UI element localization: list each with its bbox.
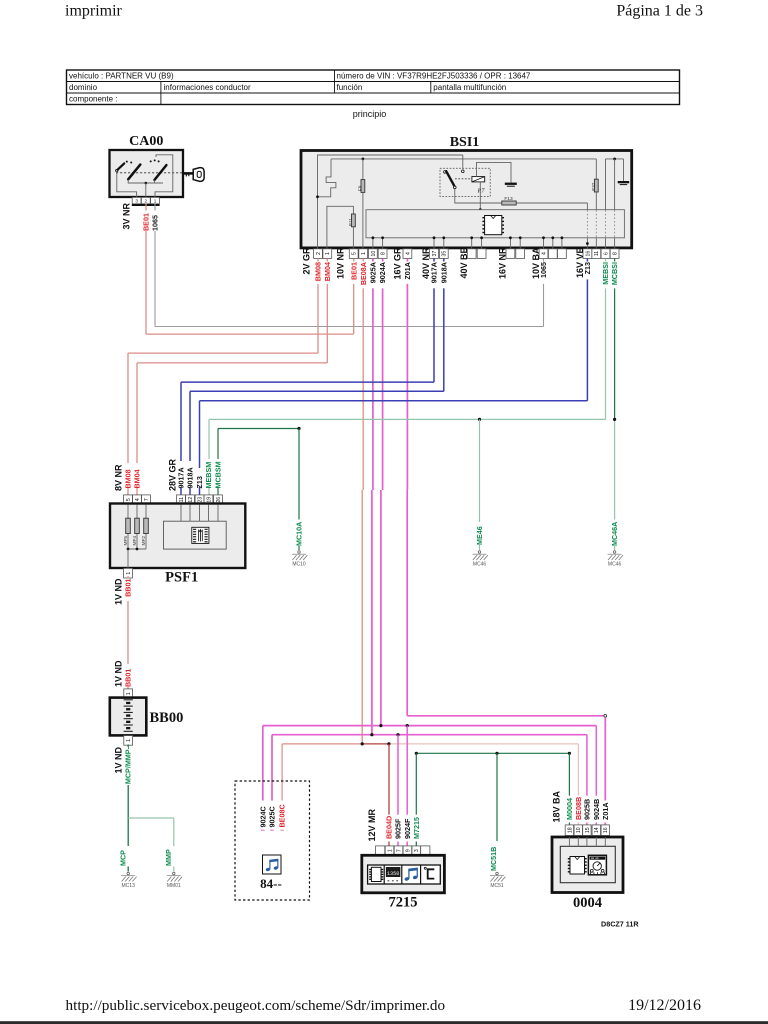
connector group label 10V NR at BSI1 xyxy=(336,247,346,279)
wire label BB01 above BB00 xyxy=(124,669,133,687)
svg-text:1V ND: 1V ND xyxy=(114,747,124,774)
svg-text:11: 11 xyxy=(179,497,185,502)
BSI1 internal logic block xyxy=(366,203,624,237)
svg-text:1: 1 xyxy=(325,252,331,255)
wire MCBSI (BSI1 pin8 down to ground MC46A) xyxy=(614,258,616,550)
svg-text:1065: 1065 xyxy=(151,215,160,231)
CA00 connector label 3V NR xyxy=(122,202,132,229)
music icon in 84 box xyxy=(263,855,282,874)
svg-text:10V NR: 10V NR xyxy=(336,247,346,279)
wire label MC10A xyxy=(295,522,304,546)
wire 9025 horizontal bus xyxy=(272,733,587,736)
BSI1 connector pins row xyxy=(314,249,619,259)
wire from R7 switch through F13 xyxy=(455,189,502,203)
BSI1 internal step connector shape xyxy=(316,159,336,198)
wire M7215 drop to 7215 xyxy=(415,753,417,846)
svg-text:MCP: MCP xyxy=(118,850,127,866)
BSI1 internal wire below F32 xyxy=(595,192,597,210)
svg-text:MCP/MMP-: MCP/MMP- xyxy=(124,746,133,784)
wire 9025B drop to 0004 xyxy=(586,735,588,825)
wire label Z13 at PSF1 xyxy=(195,476,204,488)
wire label MCP/MMP below BB00 xyxy=(124,746,133,784)
wire label MCP xyxy=(118,850,127,866)
wire 9018A (BSI1 pin35 to PSF1 pin12) xyxy=(190,258,444,495)
svg-text:F32: F32 xyxy=(591,182,597,191)
component 84 (dashed option box) xyxy=(235,781,310,900)
PSF1 internal wires and fuse bus xyxy=(127,505,146,569)
wire label 9025B at 0004 xyxy=(583,799,592,820)
BSI1 logic block IC xyxy=(482,216,504,235)
svg-text:BM04: BM04 xyxy=(133,469,142,488)
svg-text:BE08A: BE08A xyxy=(359,262,368,285)
svg-text:MC46: MC46 xyxy=(473,562,487,568)
svg-text:PSF1: PSF1 xyxy=(165,570,198,586)
wire label 9025A at BSI1 xyxy=(369,262,378,283)
PSF1 connector icon xyxy=(192,527,209,543)
component 7215 title xyxy=(389,895,418,911)
wire BE08C branch into 84 box xyxy=(280,744,284,830)
svg-text:componente :: componente : xyxy=(69,94,117,103)
wire BE08A (BSI1 down to junction E) xyxy=(362,258,363,744)
wire label 9018A at BSI1 xyxy=(439,262,448,283)
BSI1 junction on H2 at F9 xyxy=(362,158,365,161)
connector label 1V ND below PSF1 xyxy=(114,578,124,605)
BSI1 internal wire below F11 to pin 5 (BE01) xyxy=(352,227,354,249)
wire label 9025F at 7215 xyxy=(394,818,403,839)
component PSF1 body box xyxy=(110,504,245,569)
wire label BM08 at PSF1 xyxy=(124,469,133,488)
BSI1 logic block pin stubs xyxy=(372,236,615,248)
svg-text:1350: 1350 xyxy=(387,871,399,877)
svg-text:http://public.servicebox.peuge: http://public.servicebox.peugeot.com/sch… xyxy=(66,997,446,1014)
BSI1 internal wire pin 8 branch xyxy=(614,159,616,210)
7215 icon display xyxy=(386,868,400,881)
svg-text:BE01: BE01 xyxy=(142,213,151,231)
wire 9024A (BSI1 down to junction A) xyxy=(381,258,383,725)
component PSF1 labels above pins xyxy=(114,458,178,491)
BB00 bottom pin 1 xyxy=(124,736,133,746)
wire label M7215 at 7215 xyxy=(412,817,421,839)
BSI1 internal wire below F9 to pin (BE08A) xyxy=(362,192,364,248)
wire label 9025C xyxy=(268,806,277,827)
7215 icon music note xyxy=(404,868,418,882)
svg-text:F13: F13 xyxy=(504,196,513,202)
svg-text:MF5: MF5 xyxy=(123,536,129,546)
PSF1 top connector pins xyxy=(124,495,223,505)
svg-text:MC46A: MC46A xyxy=(610,522,619,546)
svg-text:7215: 7215 xyxy=(389,895,418,911)
wire 9025A (BSI1 down to junction C) xyxy=(372,258,373,734)
svg-text:1: 1 xyxy=(361,252,367,255)
wire MC51B (bus to ground MC51) xyxy=(496,753,498,841)
wire label 1065 at CA00 xyxy=(151,215,160,231)
relay R7 dashed box xyxy=(440,168,490,196)
svg-text:MM01: MM01 xyxy=(167,883,181,889)
svg-text:Z13: Z13 xyxy=(583,262,592,274)
svg-text:9025F: 9025F xyxy=(394,818,403,839)
svg-text:23: 23 xyxy=(197,497,203,503)
svg-text:3: 3 xyxy=(414,849,420,852)
component 84 title xyxy=(260,876,282,891)
fuse MF2 xyxy=(141,518,148,545)
svg-text:9017A: 9017A xyxy=(430,262,439,283)
svg-text:M0004: M0004 xyxy=(565,798,574,820)
wire label ME46 xyxy=(475,526,484,545)
svg-text:BB01: BB01 xyxy=(124,669,133,687)
0004 icon IC chip xyxy=(568,857,587,875)
svg-text:BB00: BB00 xyxy=(150,710,184,726)
svg-text:Z01A: Z01A xyxy=(601,802,610,820)
svg-text:principio: principio xyxy=(353,109,387,119)
component 7215 body box xyxy=(362,855,445,893)
svg-text:10: 10 xyxy=(371,251,377,257)
svg-text:1065: 1065 xyxy=(539,262,548,278)
wire label BE08A at BSI1 xyxy=(359,262,368,285)
wire label 9024C xyxy=(258,806,267,827)
svg-text:12: 12 xyxy=(188,497,194,503)
ground MC46 (right) xyxy=(608,551,623,568)
label "principio" xyxy=(353,109,387,119)
svg-text:informaciones conductor: informaciones conductor xyxy=(164,83,251,92)
svg-text:9018A: 9018A xyxy=(439,262,448,283)
svg-text:número de VIN : VF37R9HE2FJ503: número de VIN : VF37R9HE2FJ503336 / OPR … xyxy=(337,71,531,80)
fuse MF4 xyxy=(132,518,139,545)
wire label 1065 at BSI1 xyxy=(539,262,548,278)
relay R7 coil xyxy=(472,177,485,195)
svg-text:5: 5 xyxy=(126,498,132,501)
wire label Z01A at BSI1 xyxy=(403,262,412,280)
wire BE08 horizontal bus xyxy=(282,742,578,745)
BSI1 internal rail H2 xyxy=(331,158,596,160)
ground MC51 xyxy=(490,872,505,889)
wire label 9018A at PSF1 xyxy=(186,467,195,488)
svg-text:19: 19 xyxy=(206,497,212,503)
svg-text:imprimir: imprimir xyxy=(65,3,123,20)
connector group label 40V BE at BSI1 xyxy=(459,248,469,279)
svg-text:M7215: M7215 xyxy=(412,817,421,839)
wire MCBSM (PSF1 pin26 to MC10A ground) xyxy=(218,427,301,550)
svg-text:Z13: Z13 xyxy=(195,476,204,488)
svg-text:F11: F11 xyxy=(348,218,354,226)
svg-text:7: 7 xyxy=(144,498,150,501)
svg-text:37: 37 xyxy=(432,251,438,257)
ground MM01 xyxy=(167,872,182,889)
svg-text:BSI1: BSI1 xyxy=(450,135,480,150)
BSI1 internal ground bar (right) xyxy=(618,159,630,185)
wire label MCBSM at PSF1 xyxy=(214,461,223,488)
svg-text:9018A: 9018A xyxy=(186,467,195,488)
wire label Z01A at 0004 xyxy=(601,802,610,820)
svg-text:1V ND: 1V ND xyxy=(114,578,124,605)
BSI1 internal rail H1 xyxy=(318,155,463,249)
svg-text:1: 1 xyxy=(387,849,393,852)
relay R7 switch xyxy=(444,155,472,189)
svg-text:pantalla multifunción: pantalla multifunción xyxy=(433,83,506,92)
component CA00 title xyxy=(129,134,163,149)
0004 connector pins xyxy=(565,825,609,836)
wire 9025C branch into 84 box xyxy=(270,735,274,831)
wire BM04 (BSI1 pin1 to PSF1 pin4) xyxy=(137,258,327,495)
svg-text:MEBSM: MEBSM xyxy=(204,462,213,489)
BSI1 internal ground bar (centre) xyxy=(505,183,517,187)
svg-text:BM04: BM04 xyxy=(323,262,332,281)
svg-text:4: 4 xyxy=(135,498,141,501)
connector group label 16V NR at BSI1 xyxy=(498,247,508,279)
svg-text:F9: F9 xyxy=(358,185,364,191)
svg-text:9025B: 9025B xyxy=(583,799,592,820)
component 0004 body box xyxy=(552,837,623,893)
svg-text:35: 35 xyxy=(442,251,448,257)
wire 9024B drop to 0004 xyxy=(595,726,597,825)
svg-text:1: 1 xyxy=(126,739,132,742)
header table xyxy=(67,70,680,105)
svg-text:10: 10 xyxy=(576,827,582,833)
wire BE08B drop to 0004 xyxy=(577,744,579,825)
svg-text:BE08C: BE08C xyxy=(278,804,287,827)
svg-text:3V NR: 3V NR xyxy=(122,202,132,229)
svg-text:4: 4 xyxy=(541,252,547,255)
page header text "Página 1 de 3" xyxy=(616,3,703,20)
component BSI1 title xyxy=(450,135,480,150)
wire BM08 (BSI1 pin2 to PSF1 pin5) xyxy=(128,258,318,495)
svg-text:7: 7 xyxy=(396,849,402,852)
svg-text:2: 2 xyxy=(145,198,148,203)
connector group label 16V GR at BSI1 xyxy=(393,247,403,280)
7215 icon temperature C xyxy=(424,867,434,878)
svg-text:BM08: BM08 xyxy=(124,469,133,488)
svg-text:3: 3 xyxy=(135,198,138,203)
svg-text:6: 6 xyxy=(603,252,609,255)
svg-text:BE04D: BE04D xyxy=(385,816,394,839)
wire label MMP xyxy=(164,849,173,866)
wire label MEBSI at BSI1 xyxy=(601,262,610,285)
wire label 9024A at BSI1 xyxy=(378,262,387,283)
wire label M0004 at 0004 xyxy=(565,798,574,820)
ground MC46 xyxy=(473,551,488,568)
ground MC10 xyxy=(292,551,307,568)
svg-text:16V GR: 16V GR xyxy=(393,247,403,280)
svg-text:2: 2 xyxy=(316,252,322,255)
dashed crossing wires through logic block xyxy=(587,210,614,237)
svg-text:9024A: 9024A xyxy=(378,262,387,283)
connector group label 12V MR at 7215 xyxy=(367,808,377,841)
svg-text:MC10: MC10 xyxy=(292,562,306,568)
svg-text:MC51: MC51 xyxy=(490,883,504,889)
svg-text:MC10A: MC10A xyxy=(295,522,304,546)
svg-text:5: 5 xyxy=(352,252,358,255)
BSI1 internal wire pin 11 / F32 branch xyxy=(595,159,597,179)
CA00 pins 3,2,1 xyxy=(132,197,160,205)
svg-text:8V NR: 8V NR xyxy=(114,464,124,491)
svg-text:MC46: MC46 xyxy=(608,562,622,568)
wire M0004 drop to 0004 xyxy=(568,753,570,825)
BSI1 right internal rail with junction xyxy=(606,158,624,161)
wire label 9024F at 7215 xyxy=(403,818,412,839)
svg-text:R7: R7 xyxy=(477,189,486,195)
wire label BM08 at BSI1 xyxy=(314,262,323,281)
svg-text:MC51B: MC51B xyxy=(489,847,498,871)
svg-text:función: función xyxy=(337,83,363,92)
svg-text:16: 16 xyxy=(585,251,591,257)
svg-text:18V BA: 18V BA xyxy=(551,790,561,822)
wire BE04D drop to 7215 xyxy=(388,744,390,846)
wire label MC51B xyxy=(489,847,498,871)
component 0004 title xyxy=(573,895,602,911)
svg-text:BB01: BB01 xyxy=(124,579,133,597)
drawing reference D8CZ7 11R xyxy=(601,920,639,929)
svg-text:2V GR: 2V GR xyxy=(302,247,312,275)
key symbol at CA00 xyxy=(184,168,205,182)
BSI1 internal wire to pin 1 (BM04) xyxy=(327,206,354,248)
fuse F13 xyxy=(502,196,516,205)
wire label BE08B at 0004 xyxy=(574,797,583,820)
connector group label 16V VE at BSI1 xyxy=(575,248,585,279)
connector label 1V ND below BB00 xyxy=(114,747,124,774)
wire label MC46A xyxy=(610,522,619,546)
wire label BM04 at BSI1 xyxy=(323,262,332,281)
svg-text:dominio: dominio xyxy=(69,83,98,92)
wire label BM04 at PSF1 xyxy=(133,469,142,488)
svg-text:9: 9 xyxy=(405,849,411,852)
svg-text:9024C: 9024C xyxy=(258,806,267,827)
wire M7215/M0004 green bus xyxy=(415,752,571,755)
wire label BE04D at 7215 xyxy=(385,816,394,839)
svg-text:MF4: MF4 xyxy=(132,536,138,546)
wire label BB01 below PSF1 xyxy=(124,579,133,597)
wire 9024F drop to 7215 xyxy=(406,726,408,846)
wire BE01 (CA00 pin2 to BSI1 pin5) xyxy=(146,203,354,334)
component PSF1 title xyxy=(165,570,198,586)
bottom page edge bar xyxy=(0,1021,768,1024)
svg-text:84--: 84-- xyxy=(260,876,282,891)
wire MEBSI/MEBSM (BSI1 pin6 to PSF1 pin19) xyxy=(209,258,606,495)
svg-text:MC13: MC13 xyxy=(122,883,136,889)
7215 icon IC chip xyxy=(369,867,383,881)
wire label BE08C xyxy=(278,804,287,827)
wire from R7 coil to internal ground xyxy=(477,162,512,182)
wire label BE01 at BSI1 xyxy=(349,262,358,280)
connector group label 10V BA at BSI1 xyxy=(531,247,541,279)
footer URL text xyxy=(66,997,446,1014)
PSF1 bottom pin 1 xyxy=(124,568,133,578)
wire from F13 to pin 16 (Z13) xyxy=(516,203,587,210)
wire MCP (BB00 to ground MC13) xyxy=(127,744,129,871)
svg-text:Página 1 de 3: Página 1 de 3 xyxy=(616,3,703,20)
fuse F11 xyxy=(348,214,355,227)
wire BB01 (PSF1 to BB00) xyxy=(127,576,129,689)
svg-text:0004: 0004 xyxy=(573,895,602,911)
svg-text:9017A: 9017A xyxy=(177,467,186,488)
wire label 9017A at PSF1 xyxy=(177,467,186,488)
svg-text:MMP: MMP xyxy=(164,849,173,866)
0004 icon instrument display xyxy=(588,855,606,875)
wire ME46 (bus to ground MC46) xyxy=(479,419,481,550)
PSF1 internal logic block xyxy=(164,505,227,550)
wire label MEBSM at PSF1 xyxy=(204,462,213,489)
svg-text:40V BE: 40V BE xyxy=(459,248,469,279)
svg-text:12V MR: 12V MR xyxy=(367,808,377,841)
wire 9025F drop to 7215 xyxy=(397,735,399,846)
BB00 top pin 1 xyxy=(124,689,133,699)
svg-text:D8CZ7 11R: D8CZ7 11R xyxy=(601,920,639,929)
page header text "imprimir" xyxy=(65,3,123,20)
wire Z01A (BSI1 down, right, to 0004 pin16) xyxy=(407,258,606,825)
wire label 9017A at BSI1 xyxy=(430,262,439,283)
svg-text:9024F: 9024F xyxy=(403,818,412,839)
wire 1065 (CA00 pin1 to BSI1 10V BA pin4) xyxy=(155,203,544,326)
fuse F9 xyxy=(358,159,365,193)
wire label Z13 at BSI1 xyxy=(583,262,592,274)
wire label BE01 at CA00 xyxy=(142,213,151,231)
connector group label 2V GR at BSI1 xyxy=(302,247,312,275)
wire label MCBSI at BSI1 xyxy=(610,262,619,285)
fuse F32 xyxy=(591,179,598,192)
svg-text:8: 8 xyxy=(613,252,619,255)
7215 connector pins xyxy=(376,846,430,856)
wire MMP branch (to ground MM01) xyxy=(128,818,174,872)
component BB00 battery box xyxy=(110,698,147,736)
svg-text:1: 1 xyxy=(154,198,157,203)
connector group label 40V NR at BSI1 xyxy=(421,247,431,279)
svg-text:19/12/2016: 19/12/2016 xyxy=(628,997,701,1014)
svg-text:16: 16 xyxy=(603,827,609,833)
svg-text:1: 1 xyxy=(126,692,132,695)
svg-text:14: 14 xyxy=(594,827,600,833)
component BB00 title xyxy=(150,710,184,726)
BSI1 internal wire pin 6 branch xyxy=(605,159,607,210)
svg-text:16V NR: 16V NR xyxy=(498,247,508,279)
footer date text xyxy=(628,997,701,1014)
svg-text:9025A: 9025A xyxy=(369,262,378,283)
svg-text:9024B: 9024B xyxy=(592,799,601,820)
wire 9017A (BSI1 pin37 to PSF1 pin11) xyxy=(181,258,434,495)
svg-text:CA00: CA00 xyxy=(129,134,163,149)
svg-text:18: 18 xyxy=(567,827,573,833)
svg-text:1: 1 xyxy=(126,572,132,575)
svg-text:9025C: 9025C xyxy=(268,806,277,827)
fuse MF5 xyxy=(123,518,130,545)
svg-text:MF2: MF2 xyxy=(141,536,147,546)
svg-text:4: 4 xyxy=(405,252,411,255)
svg-text:8: 8 xyxy=(381,252,387,255)
svg-text:15: 15 xyxy=(585,827,591,833)
junction dots on green bus xyxy=(478,418,616,421)
svg-text:1V ND: 1V ND xyxy=(114,660,124,687)
wire 9024 horizontal bus xyxy=(263,724,597,727)
svg-text:BE01: BE01 xyxy=(349,262,358,280)
wire from R7 coil to logic block xyxy=(479,182,482,211)
svg-text:26: 26 xyxy=(216,497,222,503)
wire Z13 (BSI1 pin16 to PSF1 pin23) xyxy=(200,258,588,495)
svg-text:11: 11 xyxy=(594,251,600,256)
ground MC13 xyxy=(121,872,136,889)
wire label 9024B at 0004 xyxy=(592,799,601,820)
svg-text:MCBSM: MCBSM xyxy=(214,461,223,488)
svg-text:vehículo : PARTNER VU (B9): vehículo : PARTNER VU (B9) xyxy=(69,71,174,80)
svg-text:Z01A: Z01A xyxy=(403,262,412,280)
svg-text:MCBSI: MCBSI xyxy=(610,262,619,285)
connector label 1V ND above BB00 xyxy=(114,660,124,687)
svg-text:BM08: BM08 xyxy=(314,262,323,281)
wire 9024C branch into 84 box xyxy=(261,726,265,831)
svg-text:ME46: ME46 xyxy=(475,526,484,545)
component CA00 ignition switch box xyxy=(110,150,187,197)
svg-text:MEBSI: MEBSI xyxy=(601,262,610,285)
component BSI1 body box xyxy=(301,151,632,248)
connector group label 18V BA at 0004 xyxy=(551,790,561,822)
